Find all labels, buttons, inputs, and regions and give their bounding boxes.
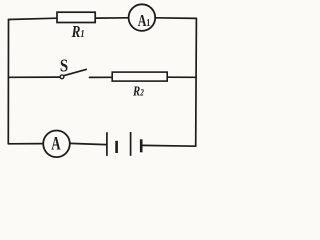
wire top middle segment (R1 to A1) (96, 17, 129, 19)
label A (51, 133, 61, 154)
wire top-left segment (9, 18, 57, 19)
resistor R1 (57, 12, 95, 22)
svg-text:R1: R1 (71, 24, 85, 42)
svg-text:R2: R2 (132, 83, 144, 98)
wire top-right segment (A1 to corner) (155, 17, 196, 20)
resistor R2 (112, 72, 167, 81)
wire middle-left segment (to switch) (8, 76, 59, 78)
wire middle segment (switch to R2) (90, 76, 113, 78)
svg-text:A: A (51, 133, 61, 154)
ammeter A (43, 131, 70, 158)
wire middle-right segment (R2 to right vertical) (168, 76, 197, 78)
switch S pivot (60, 75, 64, 79)
switch S blade (64, 69, 86, 75)
svg-text:S: S (60, 56, 68, 75)
wire bottom segment (A to battery) (70, 143, 106, 144)
label R2 (132, 83, 144, 98)
ammeter A1 (129, 4, 156, 31)
battery cell 2 long plate (130, 132, 132, 156)
battery cell 1 long plate (106, 132, 108, 156)
wire left vertical (7, 20, 9, 144)
battery cell 2 short plate (140, 139, 143, 152)
wire bottom-left segment (corner to ammeter A) (8, 143, 43, 145)
label A1 (138, 12, 151, 30)
battery cell 1 short plate (115, 141, 118, 153)
wire bottom-right segment (battery to corner) (143, 144, 196, 147)
label R1 (71, 24, 85, 42)
label S (60, 56, 68, 75)
wire right vertical (195, 18, 198, 146)
